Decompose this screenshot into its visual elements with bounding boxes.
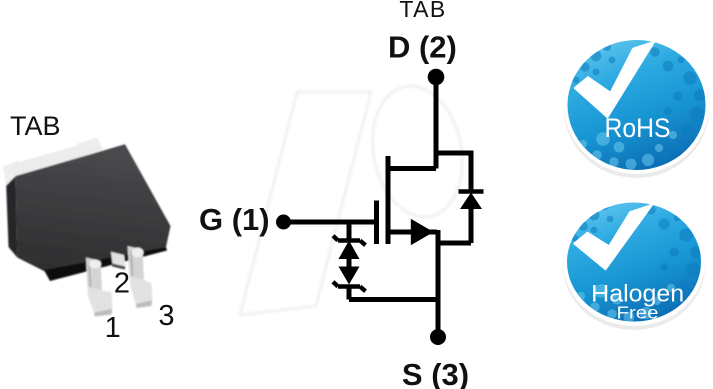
Halogen Free checkmark: [574, 205, 653, 270]
svg-text:S (3): S (3): [402, 357, 469, 389]
wire drain branch to body diode: [436, 151, 471, 156]
node G terminal dot: [276, 215, 291, 230]
RoHS badge: [564, 36, 709, 178]
wire drain vertical: [434, 77, 439, 169]
wire source vertical: [436, 230, 441, 337]
package photo group: [3, 137, 171, 316]
wire gate horizontal: [284, 220, 377, 225]
package body front face: [16, 144, 171, 272]
svg-text:TAB: TAB: [10, 111, 61, 141]
svg-text:1: 1: [105, 312, 121, 344]
body diode D1 cathode bar: [459, 189, 484, 193]
pin 3 lead: [128, 246, 145, 280]
watermark O glyph: [362, 78, 474, 224]
wire source arrow horizontal: [388, 230, 437, 235]
svg-text:G (1): G (1): [199, 202, 270, 237]
wire zener to source horizontal: [349, 297, 438, 302]
package body left face: [6, 176, 17, 258]
Halogen Free badge: [563, 198, 705, 330]
watermark slash glyph: [240, 92, 371, 315]
zener Z2 triangle: [339, 267, 360, 285]
wire zener vertical top: [347, 222, 352, 239]
wire zener middle link: [347, 258, 352, 268]
svg-text:3: 3: [158, 300, 174, 332]
svg-text:Free: Free: [617, 303, 659, 323]
MOSFET channel line: [386, 156, 391, 244]
node S terminal dot: [430, 329, 446, 345]
package tab metal tip: [3, 161, 21, 193]
wire drain to channel horizontal: [386, 166, 437, 171]
wire body diode vertical upper: [469, 151, 474, 193]
svg-text:RoHS: RoHS: [605, 113, 671, 143]
node D terminal dot: [428, 69, 445, 86]
MOSFET gate bar: [374, 201, 379, 245]
package tab metal strip: [10, 140, 103, 179]
package tab bump: [78, 137, 101, 151]
RoHS checkmark: [575, 42, 655, 118]
zener Z2 cathode bar: [333, 282, 366, 291]
wire body diode vertical lower: [469, 208, 474, 243]
wire body diode bottom horizontal: [438, 241, 471, 246]
wire zener vertical bottom: [347, 286, 352, 300]
zener Z1 cathode bar: [333, 236, 366, 245]
package body bottom bevel: [44, 247, 167, 281]
svg-text:D (2): D (2): [388, 30, 457, 65]
pin 1 lead: [86, 258, 102, 291]
zener Z1 triangle: [339, 241, 360, 260]
pin 2 stub: [111, 252, 125, 267]
schematic group: [284, 77, 472, 337]
MOSFET source arrow head: [411, 219, 434, 245]
svg-text:2: 2: [114, 268, 130, 300]
body diode D1 triangle: [460, 193, 482, 210]
svg-text:TAB: TAB: [399, 0, 446, 22]
